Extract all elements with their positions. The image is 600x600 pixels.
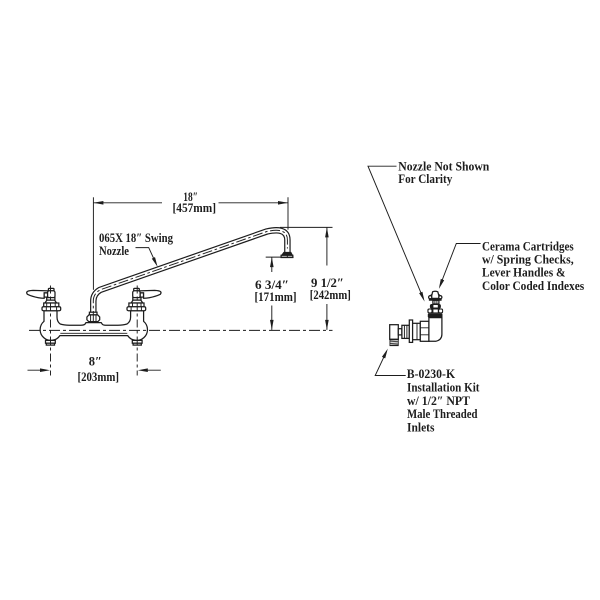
18in dimension left extension line <box>92 197 94 289</box>
9.5in dimension text <box>310 276 351 302</box>
collar <box>47 298 55 301</box>
valve hex nut (side view) <box>427 309 443 314</box>
lever handle end view <box>429 291 442 301</box>
body inner shoulder line <box>60 332 127 334</box>
nozzle swivel collar <box>89 312 97 315</box>
left valve upper stack <box>27 288 61 310</box>
left inlet shank <box>46 340 56 345</box>
svg-text:B-0230-K: B-0230-K <box>407 367 456 381</box>
svg-text:Inlets: Inlets <box>407 421 435 435</box>
leader: cerama cartridges <box>439 244 481 289</box>
8in dimension arrows <box>28 368 161 372</box>
leader: nozzle not shown <box>368 166 425 301</box>
9.5in dimension line <box>325 227 329 330</box>
inlet end block <box>390 325 399 340</box>
handle blade <box>27 290 49 298</box>
male threaded end (hatched) <box>390 339 398 345</box>
18in dimension right extension line <box>287 197 289 229</box>
svg-text:[242mm]: [242mm] <box>310 288 351 302</box>
valve stem spline <box>433 300 439 304</box>
valve seam band <box>428 313 443 317</box>
text: cerama cartridges <box>482 239 584 293</box>
spout tip flange <box>281 252 293 258</box>
left valve vertical centerline <box>50 286 52 376</box>
right handle hub cap <box>134 288 140 291</box>
leader: installation kit <box>375 349 406 376</box>
svg-text:w/ Spring Checks,: w/ Spring Checks, <box>482 253 574 267</box>
6.75in extension line under spout <box>266 256 294 258</box>
right hex nut <box>129 303 144 307</box>
nut B <box>413 323 421 339</box>
svg-text:Lever Handles &: Lever Handles & <box>482 266 566 280</box>
right valve vertical centerline <box>136 286 138 376</box>
bonnet <box>45 300 57 303</box>
6.75in dimension line <box>270 257 274 330</box>
faucet body with valve columns, flange-circle ends and center boss <box>40 311 147 341</box>
right handle hub <box>133 291 140 298</box>
svg-text:[203mm]: [203mm] <box>78 370 120 384</box>
handle hub <box>48 291 55 298</box>
neck <box>398 329 402 335</box>
svg-text:Installation Kit: Installation Kit <box>407 381 480 395</box>
valve bonnet (side view) <box>430 304 441 309</box>
6.75in dimension text <box>255 278 297 304</box>
right bonnet <box>131 300 143 303</box>
union nut <box>420 321 429 341</box>
horizontal body centerline <box>29 329 333 331</box>
text: installation kit <box>407 367 480 434</box>
right flange band <box>127 307 146 311</box>
right handle adapter <box>140 293 143 297</box>
ribbed locknut <box>402 325 409 338</box>
18in dimension text <box>173 190 217 215</box>
nozzle swivel hex nut <box>87 315 100 322</box>
nozzle label leader <box>136 248 158 267</box>
svg-text:For Clarity: For Clarity <box>398 172 453 186</box>
nozzle axis centerline <box>93 230 287 321</box>
svg-text:065X 18″ Swing: 065X 18″ Swing <box>99 231 174 245</box>
svg-text:Nozzle: Nozzle <box>99 244 129 258</box>
tall wall flange <box>409 320 412 342</box>
hex nut <box>44 303 59 307</box>
svg-text:[171mm]: [171mm] <box>255 290 297 304</box>
right inlet shank <box>132 340 142 345</box>
9.5in top extension line <box>280 226 333 228</box>
8in dimension text <box>78 355 120 384</box>
right collar <box>133 298 141 301</box>
flange band <box>42 307 61 311</box>
svg-text:Cerama Cartridges: Cerama Cartridges <box>482 239 574 253</box>
18in dimension line <box>93 201 288 205</box>
svg-text:8″: 8″ <box>89 355 102 369</box>
swing nozzle tube <box>93 230 287 313</box>
handle hub cap <box>48 288 54 291</box>
svg-text:w/ 1/2″ NPT: w/ 1/2″ NPT <box>407 394 471 408</box>
svg-text:[457mm]: [457mm] <box>173 201 217 215</box>
handle adapter <box>44 293 47 297</box>
text: nozzle not shown <box>398 160 489 187</box>
svg-text:Male Threaded: Male Threaded <box>407 407 478 421</box>
svg-text:Color Coded Indexes: Color Coded Indexes <box>482 279 584 293</box>
nozzle label text <box>99 231 174 258</box>
right handle blade <box>139 290 161 298</box>
elbow vertical tube <box>429 318 442 342</box>
